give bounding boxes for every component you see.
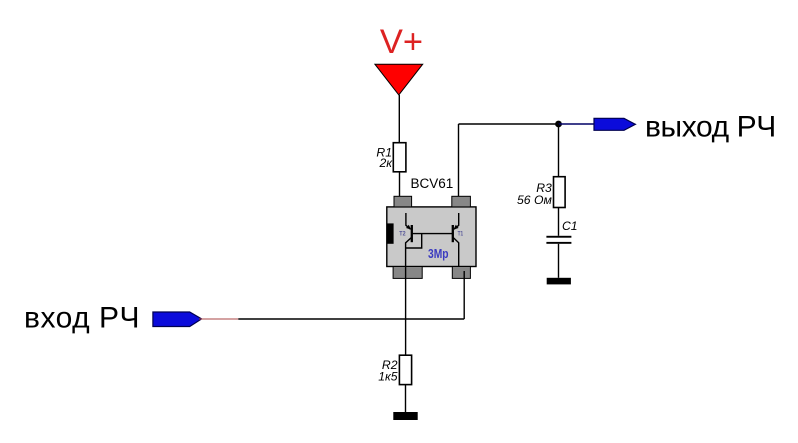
transistor pair U1 BCV61 package body [387, 207, 476, 267]
svg-text:56 Ом: 56 Ом [517, 193, 552, 207]
wire T2 base-emitter tie [406, 234, 422, 248]
wire to output node [459, 123, 559, 125]
wire T1 collector up [458, 124, 460, 196]
power supply V+ triangle symbol [375, 64, 423, 95]
svg-text:2к: 2к [378, 156, 393, 170]
wire base interconnect T2-T1 [412, 233, 453, 235]
capacitor C1 top plate [546, 236, 571, 238]
svg-text:T1: T1 [458, 231, 464, 237]
resistor R3 [554, 177, 566, 208]
input port arrow [153, 312, 202, 327]
wire R2 to ground [405, 385, 407, 412]
wire C1 to ground [558, 244, 560, 278]
ground symbol at C1 [547, 278, 571, 285]
wire node to R3 [558, 124, 560, 177]
transistor T2 collector lead [406, 213, 411, 229]
transistor T1 collector lead [454, 213, 459, 229]
capacitor C1 bottom plate [546, 242, 571, 244]
resistor R2 [399, 355, 411, 384]
transistor T1 collector arrowhead [453, 225, 458, 230]
pin pad top-right [452, 196, 471, 207]
transistor T2 base bar [411, 225, 413, 242]
transistor T2 emitter lead [406, 238, 412, 267]
transistor T1 base bar [452, 225, 454, 242]
pin pad bottom-left [393, 267, 422, 279]
transistor T1 emitter lead [453, 238, 458, 267]
svg-text:вход РЧ: вход РЧ [24, 301, 140, 334]
wire input red segment [199, 318, 238, 320]
wire T1 emitter down [463, 271, 465, 319]
svg-text:выход РЧ: выход РЧ [645, 111, 776, 144]
wire R1 to Q1 collector pad [399, 172, 401, 197]
ground symbol at R2 [393, 412, 417, 420]
wire node to output arrow [559, 123, 595, 125]
svg-text:V+: V+ [380, 23, 423, 61]
svg-text:1к5: 1к5 [378, 369, 398, 383]
pin pad bottom-right [452, 267, 470, 279]
svg-text:3Мр: 3Мр [428, 246, 449, 261]
package pin-1 index mark [388, 223, 394, 243]
wire input to emitters [238, 318, 464, 320]
wire T2 emitter down to R2 [405, 266, 407, 356]
transistor T2 collector arrowhead [406, 225, 411, 230]
pin pad top-left [394, 196, 412, 207]
resistor R1 [393, 143, 406, 172]
wire R3 to C1 [558, 208, 560, 236]
svg-text:C1: C1 [562, 219, 578, 233]
node junction dot [555, 121, 562, 128]
svg-text:BCV61: BCV61 [411, 176, 454, 191]
output port arrow [594, 118, 635, 130]
wire V+ to R1 [398, 95, 400, 143]
svg-text:T2: T2 [399, 231, 406, 237]
